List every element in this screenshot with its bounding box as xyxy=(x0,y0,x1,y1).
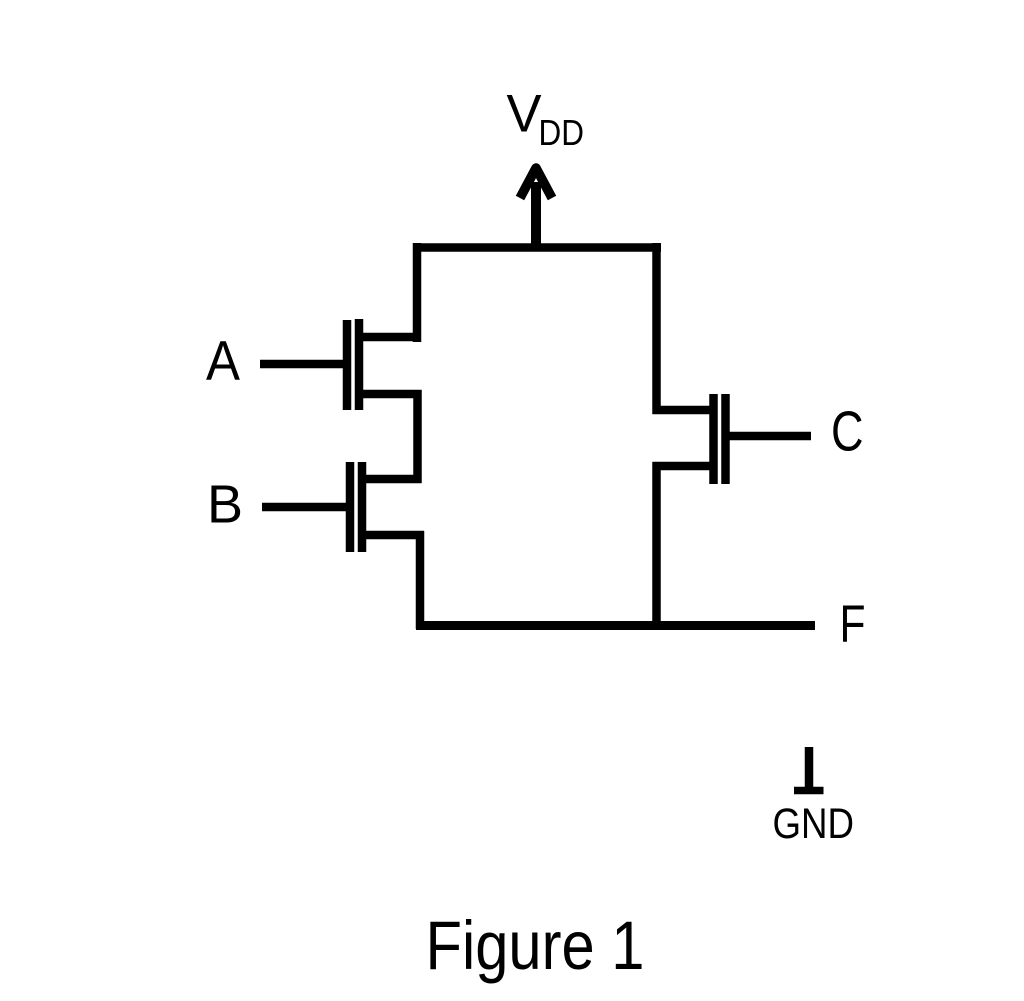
wire M3 source lead xyxy=(653,462,714,471)
svg-text:A: A xyxy=(206,330,240,392)
wire VDD arrowhead xyxy=(520,168,552,198)
wire gate lead A xyxy=(260,360,347,369)
svg-text:GND: GND xyxy=(773,800,855,848)
wire top VDD rail xyxy=(413,243,661,252)
wire M3 drain lead xyxy=(653,406,714,415)
svg-text:C: C xyxy=(831,400,864,463)
wire VDD arrow shaft xyxy=(531,182,541,249)
transistor M2 channel bar xyxy=(358,462,367,552)
wire junction M1 source to M2 drain xyxy=(413,390,422,483)
wire right riser from VDD rail to M3 drain xyxy=(652,243,661,414)
wire M2 source riser down to output node F xyxy=(416,531,425,629)
svg-text:B: B xyxy=(207,475,243,535)
transistor M3 channel bar xyxy=(709,394,718,484)
wire output rail F xyxy=(416,621,815,630)
wire M1 source lead xyxy=(359,390,422,399)
node VDD label xyxy=(507,85,585,154)
wire gate lead B xyxy=(262,503,350,512)
svg-text:Figure 1: Figure 1 xyxy=(426,907,645,984)
transistor M2 gate bar (input B) xyxy=(346,462,355,552)
wire gate lead C xyxy=(726,432,812,441)
transistor M1 channel bar xyxy=(355,319,364,410)
ground symbol bar xyxy=(794,787,824,795)
transistor M3 gate bar (input C) xyxy=(721,394,730,484)
wire M2 source lead xyxy=(362,531,424,540)
svg-text:DD: DD xyxy=(539,112,585,153)
wire M1 drain lead xyxy=(359,333,421,342)
ground symbol stem xyxy=(805,747,814,790)
wire M2 drain lead xyxy=(362,475,422,484)
wire left riser from VDD rail to M1 drain xyxy=(413,243,422,342)
svg-text:V: V xyxy=(507,85,542,144)
wire M3 source riser down to output rail xyxy=(652,462,661,629)
svg-text:F: F xyxy=(840,595,866,654)
transistor M1 gate bar (input A) xyxy=(343,320,352,410)
